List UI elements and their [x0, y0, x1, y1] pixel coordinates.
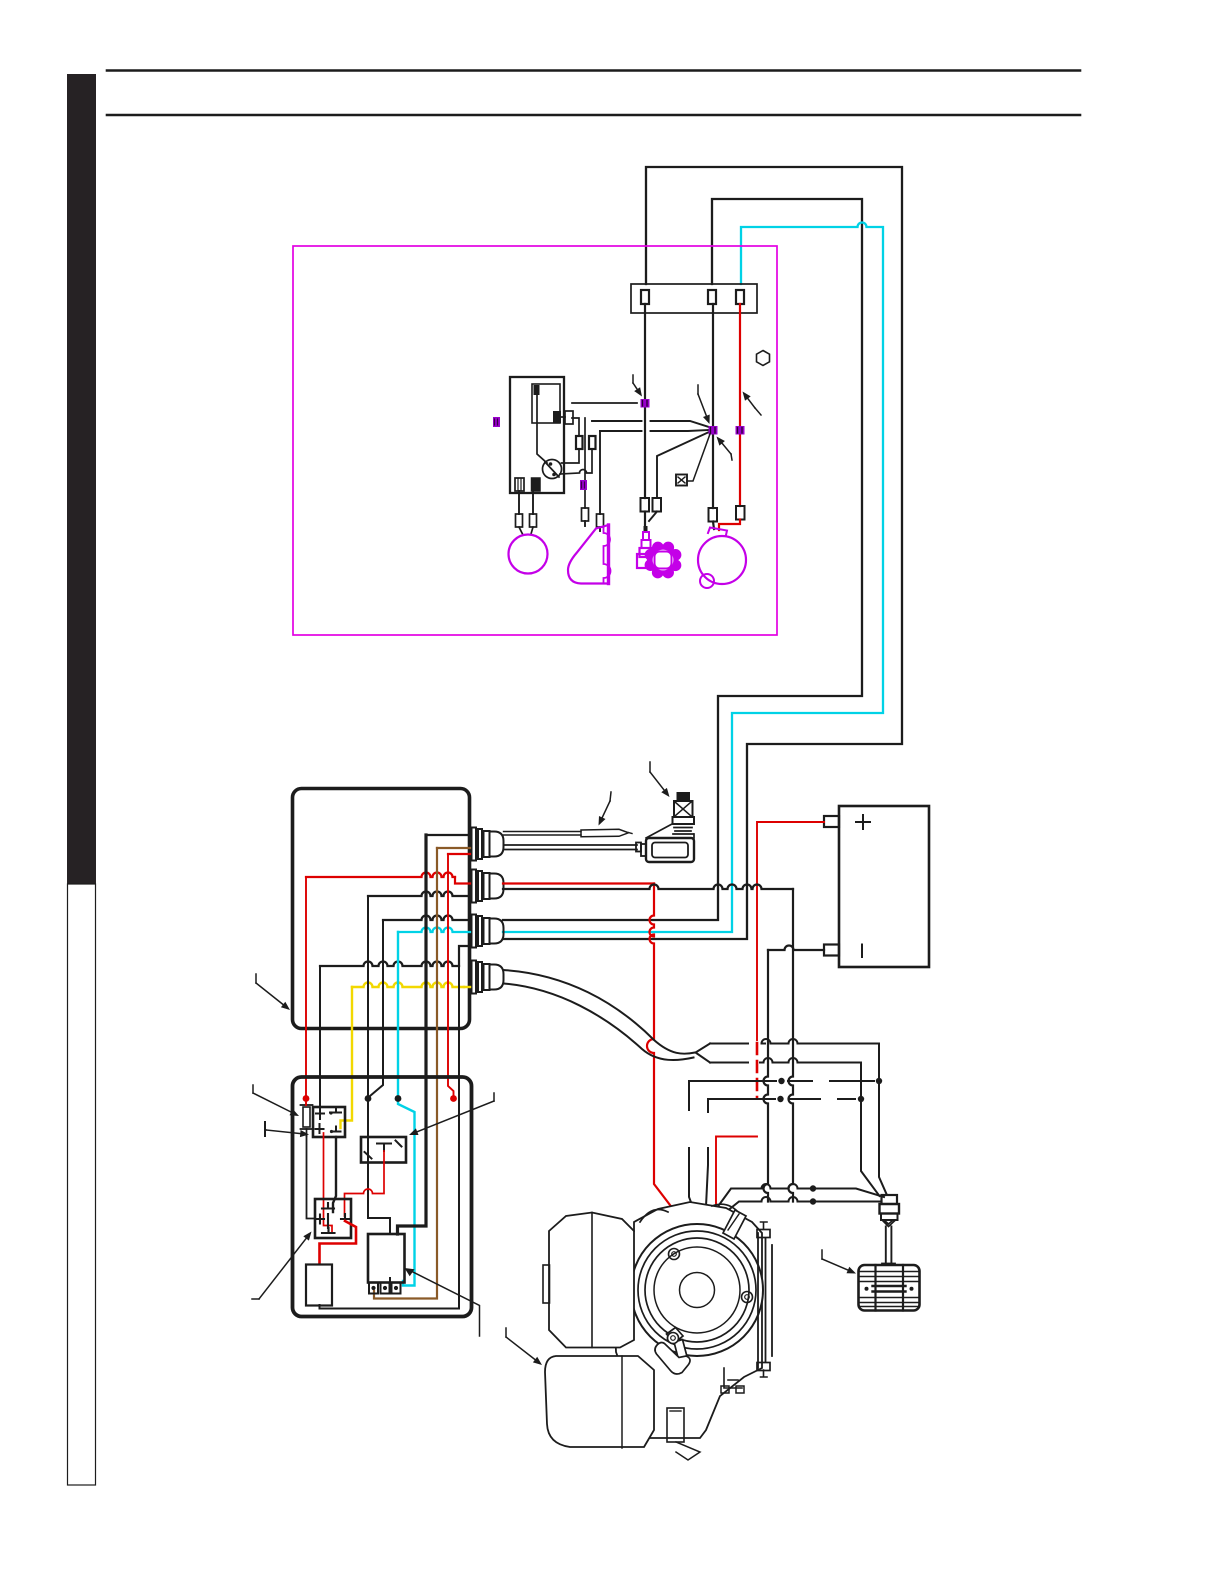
connector node C2 purple [709, 426, 718, 435]
start switch S2 [361, 1137, 406, 1163]
engine ear right [712, 1204, 740, 1214]
battery plus terminal [824, 816, 839, 827]
wire boot right drop [599, 431, 601, 514]
engine flange [758, 1233, 772, 1368]
blower housing [549, 1213, 634, 1348]
starter relay K1 [368, 1234, 405, 1283]
carb connector 1 [641, 498, 650, 512]
fuel solenoid valve [677, 792, 691, 801]
temperature probe [504, 832, 582, 836]
module connector striped [515, 478, 524, 491]
control box callout arrow [256, 983, 288, 1008]
wire module h403 [572, 402, 637, 404]
wire S3 red out thick [320, 1221, 357, 1264]
wire module drop x585 [584, 418, 586, 508]
connector node C1 purple [641, 399, 650, 408]
connector node C3 purple [736, 426, 745, 435]
wire S1 feed [319, 1107, 321, 1113]
junction dot k1 [365, 1095, 372, 1102]
engine foot [667, 1408, 684, 1442]
wire red starter lead [719, 520, 740, 531]
module pad 2 [553, 411, 561, 423]
starter bendix [700, 574, 714, 588]
wire fuse to S3 [307, 1136, 316, 1219]
wire boot lead [584, 521, 586, 526]
S1 contacts [316, 1107, 342, 1133]
wire cyan loop (terminal3 to gland3) [503, 223, 883, 933]
wire boot right lead [599, 527, 601, 531]
carb connector 2 [653, 498, 662, 512]
transistor dot b [552, 473, 556, 477]
ignition coil pack [859, 1265, 920, 1311]
sensor coupler [636, 843, 641, 852]
flywheel face [654, 1247, 740, 1333]
wire black h896 [368, 892, 470, 897]
junction dot k3 [450, 1095, 457, 1102]
spark plug cone [882, 1220, 896, 1227]
wire gland2 black external [503, 885, 793, 890]
lower panel box [293, 1077, 472, 1317]
terminal 1 [641, 290, 649, 304]
purple mark A [493, 417, 500, 427]
header rule top [107, 69, 1080, 72]
module inner board [532, 384, 560, 423]
battery plus sign [856, 815, 870, 829]
header rule bottom [107, 114, 1080, 117]
wire harness row B [710, 1058, 880, 1196]
junction dot C1 [778, 1078, 784, 1084]
wire plug row 2 [706, 1197, 880, 1228]
wire S2 red to S3 [345, 1151, 385, 1216]
switch1 callout arrow [266, 1130, 306, 1134]
wire starter lead black [713, 522, 714, 530]
wire carb lead 1 [644, 512, 646, 528]
wire yellow v352 [341, 987, 353, 1128]
battery [839, 806, 929, 967]
wire gland1 black [426, 834, 470, 836]
flange bolt bottom [757, 1363, 770, 1371]
control box [293, 789, 470, 1029]
wire yellow h987 [352, 983, 464, 988]
battery minus terminal [824, 945, 839, 956]
wire red v654 to engine [647, 884, 686, 1227]
module connector solid [532, 478, 541, 491]
wire terminal2 drop [712, 304, 714, 508]
flywheel bolt 1 [669, 1249, 680, 1260]
sidebar lower outline [68, 884, 96, 1485]
wire S1 to S3 black [333, 1137, 336, 1212]
wire engine row D [708, 1098, 855, 1100]
hour meter leads [519, 491, 533, 514]
starter connector red [736, 506, 745, 520]
S2 contacts [365, 1141, 402, 1159]
wire red v306 [305, 877, 307, 1096]
oil pressure sensor body [646, 838, 694, 862]
junction dot C2 [876, 1078, 882, 1084]
cable gland 2 [472, 870, 477, 903]
cable gland 4 [472, 961, 477, 994]
transistor Q1 circle [543, 460, 562, 479]
hex nut [757, 351, 770, 366]
wire black v383 [370, 920, 383, 1096]
engine block silhouette [612, 1202, 762, 1438]
module link wire [561, 416, 565, 418]
module side connector [565, 411, 573, 424]
cylinder head [723, 1210, 746, 1239]
wire brown v437 [374, 848, 437, 1299]
starter motor [698, 536, 746, 584]
fuel tank seam [621, 1356, 623, 1448]
wire black h966 [320, 962, 459, 967]
wire node to carb 2 [657, 432, 709, 498]
wire black v793 [789, 889, 794, 1202]
wire black v368 [368, 896, 390, 1234]
spark plug hex [881, 1214, 898, 1221]
K1 terminal 1 [369, 1283, 378, 1294]
flywheel ring 3 [645, 1238, 749, 1342]
wire harness row A [710, 1039, 887, 1194]
kill switch square [676, 475, 687, 486]
wire S1 red drop [324, 1133, 333, 1232]
wire black inner loop (terminal2 top to gland3) [503, 199, 862, 920]
starter connector black [709, 508, 718, 522]
flywheel bolt 3 overdraw [668, 1333, 679, 1344]
boot connector [582, 508, 589, 521]
junction dot R2 [810, 1198, 816, 1204]
callout arrow to C1 [633, 383, 640, 394]
wire battery negative [768, 946, 824, 951]
callout arrow to C2 lower [718, 439, 731, 454]
wire black v768 [764, 950, 769, 1202]
wire black h920 internal [383, 916, 470, 921]
wire battery red lower [709, 1137, 757, 1227]
wire bundle v426 [398, 835, 427, 1234]
fuel tank [545, 1356, 654, 1447]
hour meter connector 1 [516, 514, 523, 527]
wire gland1 red stub [448, 853, 470, 855]
wire engine drop C [689, 1081, 700, 1226]
wire gland1 brown stub [437, 847, 470, 849]
S3 contacts [316, 1203, 350, 1233]
spark plug cap [882, 1195, 898, 1204]
stray tick [264, 1122, 266, 1136]
wire carb lead 2 [649, 512, 657, 522]
junction dot R1 [810, 1185, 816, 1191]
fuse callout arrow [253, 1093, 296, 1115]
resistor R2 [589, 436, 596, 449]
ignition module box [510, 377, 564, 493]
starter cap [708, 528, 727, 536]
wire black v320 [319, 966, 321, 1108]
wire black v459 capacitor loop [320, 946, 460, 1309]
ignition coil side [568, 525, 609, 584]
flywheel outer [631, 1224, 763, 1356]
tank callout arrow [506, 1337, 540, 1363]
coil callout arrow [822, 1259, 853, 1272]
callout arrow to red wire [744, 394, 755, 408]
junction dot D2 [858, 1096, 864, 1102]
engine harness cable [504, 970, 696, 1054]
starter handle pad [667, 1328, 684, 1344]
junction dot k2 [395, 1095, 402, 1102]
flywheel hub [680, 1273, 715, 1308]
engine ear left [640, 1210, 668, 1222]
terminal 3 [736, 290, 744, 304]
hour meter circle [509, 535, 548, 574]
blower housing rib [591, 1213, 593, 1348]
plug rod [886, 1227, 892, 1264]
flange bolt top [757, 1230, 770, 1238]
connector strip [631, 284, 757, 313]
K1 terminal 2 [381, 1283, 390, 1294]
transistor dot a [549, 462, 553, 466]
wire module h431 to node [600, 430, 709, 431]
cable gland 1 [472, 828, 477, 861]
blower tab [543, 1265, 550, 1303]
solenoid callout arrow [650, 772, 668, 795]
wire cyan v398 [398, 932, 415, 1286]
wire R2 bottom to Q1 [560, 449, 592, 474]
carburetor solenoid body [644, 526, 648, 532]
wire battery positive red [757, 822, 824, 1040]
flywheel ring 2 [638, 1231, 756, 1349]
K1 terminal 3 [392, 1283, 401, 1294]
resistor R1 [576, 436, 583, 449]
wire red terminal3 drop [739, 304, 741, 506]
transistor Q1 bar [545, 462, 559, 477]
flywheel bolt 2 [742, 1292, 753, 1303]
battery minus sign [861, 945, 863, 958]
sensor cable [504, 845, 638, 850]
wire cyan h932 internal [398, 928, 470, 933]
spark plug body [880, 1204, 900, 1214]
ignition switch S1 [313, 1107, 345, 1137]
probe callout arrow [600, 801, 610, 823]
relay callout arrow [409, 1270, 480, 1336]
hour meter lead ends [519, 527, 533, 535]
starter handle lever [674, 1340, 687, 1360]
purple mark B [580, 480, 587, 490]
wire module h421 to node [592, 421, 709, 427]
wire black outer loop (terminal1 to gland3) [503, 167, 902, 939]
wire plug row 1 [703, 1184, 884, 1227]
wire node to kill switch [688, 434, 711, 481]
wire engine drop D [705, 1099, 708, 1227]
switch3 callout arrow [259, 1234, 310, 1299]
engine compartment boundary [293, 246, 777, 635]
junction dot red in [303, 1095, 310, 1102]
module internal wire [537, 395, 547, 463]
wire R1 top [572, 418, 579, 436]
flywheel bolt 3 [668, 1333, 679, 1344]
relay switch S3 [315, 1199, 351, 1238]
cable gland 3 [472, 915, 477, 948]
harness fork [696, 1044, 711, 1063]
sidebar black tab [67, 74, 96, 884]
callout arrow to C2 upper [698, 394, 708, 421]
engine bracket lower [724, 1368, 742, 1388]
terminal 2 [708, 290, 716, 304]
wire terminal1 drop [644, 304, 646, 498]
wire R1 bottom to Q1 [562, 449, 580, 463]
module pad 1 [534, 385, 540, 395]
hour meter connector 2 [530, 514, 537, 527]
switch2 callout arrow [412, 1101, 494, 1134]
junction dot D1 [777, 1096, 783, 1102]
starter handle grip [655, 1342, 690, 1374]
wire gland2 red external [503, 882, 654, 884]
wire engine row C [689, 1080, 874, 1082]
wire red v448 [448, 854, 454, 1096]
K1 stripes [389, 1282, 391, 1293]
boot right connector [597, 514, 604, 527]
fuse F1 [303, 1107, 310, 1127]
wire red main horizontal [306, 873, 455, 878]
capacitor C1 [306, 1265, 332, 1306]
